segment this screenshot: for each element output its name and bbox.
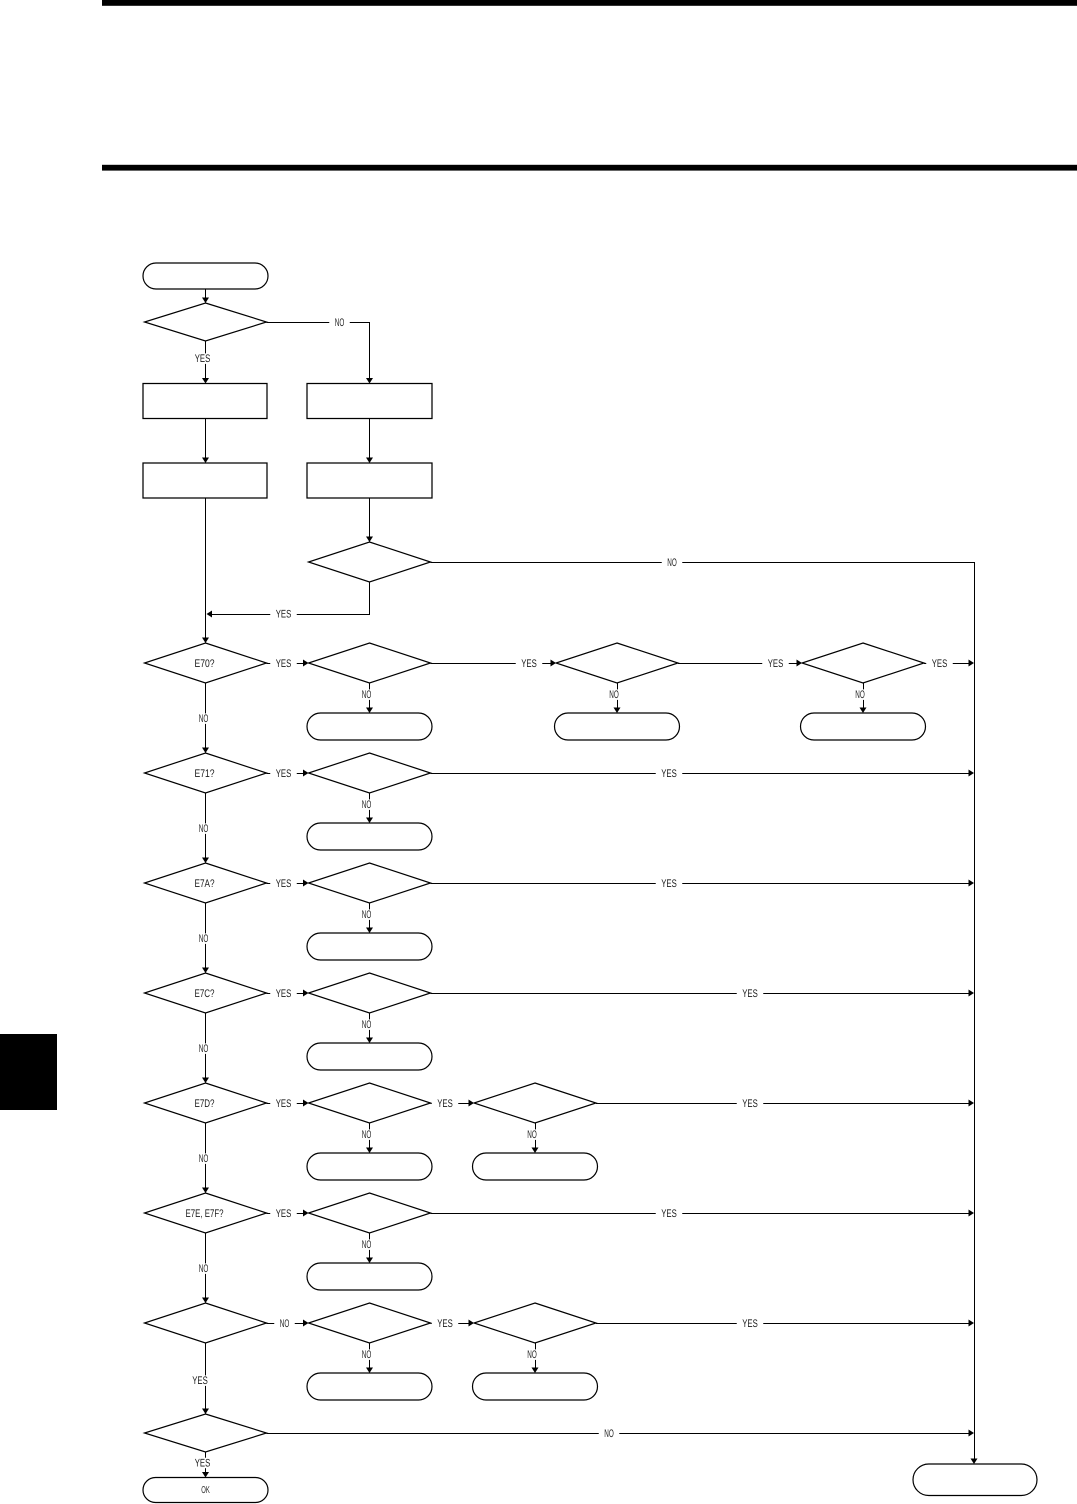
- wire E7A NO down: [205, 903, 207, 972]
- wire A2 down to E70 decision: [205, 498, 207, 642]
- svg-text:NO: NO: [604, 1428, 614, 1440]
- terminator OK: [143, 1478, 268, 1503]
- wire A1 to A2: [205, 419, 207, 462]
- svg-text:YES: YES: [276, 988, 292, 1000]
- decision blank row: [145, 1303, 267, 1343]
- right rail wire: [974, 562, 976, 1463]
- svg-text:YES: YES: [195, 353, 211, 365]
- svg-text:YES: YES: [437, 1318, 453, 1330]
- wire Q2 NO right to rail: [431, 562, 975, 564]
- svg-text:YES: YES: [276, 768, 292, 780]
- wire E7E NO down: [205, 1233, 207, 1302]
- wire E7A-B YES to rail: [431, 883, 973, 885]
- label NO on Q1 branch: [329, 317, 350, 328]
- wire start to Q1: [205, 289, 207, 302]
- svg-text:E70?: E70?: [195, 658, 215, 670]
- label YES E7D to B: [267, 1103, 308, 1105]
- wire E70-D YES to rail: [924, 663, 973, 665]
- svg-text:YES: YES: [195, 1457, 211, 1469]
- svg-text:NO: NO: [280, 1318, 290, 1330]
- decision blank-B with result terminator: [309, 1303, 431, 1343]
- svg-text:NO: NO: [199, 713, 209, 725]
- svg-text:NO: NO: [362, 1129, 372, 1141]
- label YES E7A to B: [267, 883, 308, 885]
- process box A2: [143, 463, 267, 498]
- process box A1: [143, 384, 267, 419]
- svg-text:NO: NO: [362, 909, 372, 921]
- decision E70: [145, 643, 267, 683]
- decision E7C-B with result terminator: [309, 973, 431, 1013]
- decision E7D-B with result terminator: [309, 1083, 431, 1123]
- wire Q2 YES down-left junction: [209, 583, 370, 615]
- label NO on final branch: [599, 1428, 620, 1439]
- svg-text:YES: YES: [742, 1098, 758, 1110]
- svg-text:NO: NO: [199, 933, 209, 945]
- section rule bar: [102, 165, 1077, 171]
- wire final NO right to rail: [267, 1433, 973, 1435]
- svg-text:NO: NO: [362, 1239, 372, 1251]
- svg-text:NO: NO: [199, 1043, 209, 1055]
- svg-text:NO: NO: [362, 1349, 372, 1361]
- decision E71: [145, 753, 267, 793]
- wire E70 NO down: [205, 683, 207, 752]
- wire E71 NO down: [205, 793, 207, 862]
- svg-text:NO: NO: [199, 823, 209, 835]
- wire blank-B YES to C2: [431, 1323, 473, 1325]
- process box B2: [307, 463, 432, 498]
- svg-text:YES: YES: [276, 1208, 292, 1220]
- label NO blank to B: [267, 1323, 308, 1325]
- svg-text:NO: NO: [527, 1349, 537, 1361]
- svg-text:NO: NO: [667, 557, 677, 569]
- svg-text:YES: YES: [742, 988, 758, 1000]
- decision E7E E7F: [145, 1193, 267, 1233]
- label YES E7E to B: [267, 1213, 308, 1215]
- svg-text:YES: YES: [276, 878, 292, 890]
- wire blank-C2 YES to rail: [596, 1323, 973, 1325]
- svg-text:YES: YES: [661, 1208, 677, 1220]
- label YES E7C to B: [267, 993, 308, 995]
- svg-text:YES: YES: [768, 658, 784, 670]
- svg-text:NO: NO: [855, 689, 865, 701]
- decision Q2: [309, 542, 431, 582]
- svg-text:YES: YES: [932, 658, 948, 670]
- svg-text:NO: NO: [335, 317, 345, 329]
- decision E7C: [145, 973, 267, 1013]
- svg-text:YES: YES: [742, 1318, 758, 1330]
- svg-text:NO: NO: [609, 689, 619, 701]
- label YES on Q2 branch: [270, 609, 297, 620]
- decision E70-C with result terminator: [556, 643, 678, 683]
- terminator bottom right: [913, 1464, 1037, 1496]
- wire final YES down: [205, 1452, 207, 1476]
- wire E7C-B YES to rail: [431, 993, 973, 995]
- svg-text:E7D?: E7D?: [195, 1098, 215, 1110]
- label YES under Q1: [189, 353, 216, 364]
- decision E7D-C2 with result terminator: [474, 1083, 596, 1123]
- decision E70-D with result terminator: [802, 643, 924, 683]
- decision E7D: [145, 1083, 267, 1123]
- decision final: [145, 1414, 267, 1452]
- svg-text:E7E, E7F?: E7E, E7F?: [186, 1208, 224, 1220]
- svg-text:YES: YES: [437, 1098, 453, 1110]
- svg-text:YES: YES: [276, 1098, 292, 1110]
- svg-text:YES: YES: [661, 768, 677, 780]
- wire B2 down to Q2: [369, 498, 371, 541]
- svg-text:E71?: E71?: [195, 768, 215, 780]
- svg-text:NO: NO: [362, 689, 372, 701]
- wire blank YES down to final: [205, 1343, 207, 1413]
- decision E7A-B with result terminator: [309, 863, 431, 903]
- label YES E71 to B: [267, 773, 308, 775]
- decision E7E-B with result terminator: [309, 1193, 431, 1233]
- wire E7D NO down: [205, 1123, 207, 1192]
- start terminator: [143, 263, 268, 289]
- svg-text:NO: NO: [527, 1129, 537, 1141]
- top black bar: [102, 0, 1077, 6]
- wire E70-B YES to C: [431, 663, 555, 665]
- label YES E70 to B: [267, 663, 308, 665]
- svg-text:YES: YES: [192, 1375, 208, 1387]
- left edge page tab: [0, 1034, 57, 1110]
- wire E7D-B YES to C2: [431, 1103, 473, 1105]
- svg-text:YES: YES: [661, 878, 677, 890]
- svg-text:E7A?: E7A?: [195, 878, 215, 890]
- svg-text:NO: NO: [199, 1263, 209, 1275]
- process box B1: [307, 384, 432, 419]
- svg-text:E7C?: E7C?: [195, 988, 215, 1000]
- decision Q1: [145, 303, 267, 341]
- wire E7D-C2 YES to rail: [596, 1103, 973, 1105]
- decision blank-C2 with result terminator: [474, 1303, 596, 1343]
- svg-text:NO: NO: [199, 1153, 209, 1165]
- wire E71-B YES to rail: [431, 773, 973, 775]
- svg-text:NO: NO: [362, 799, 372, 811]
- wire Q1 YES down: [205, 341, 207, 382]
- wire E7C NO down: [205, 1013, 207, 1082]
- svg-text:YES: YES: [276, 658, 292, 670]
- svg-text:YES: YES: [276, 609, 292, 621]
- wire B1 to B2: [369, 419, 371, 462]
- decision E7A: [145, 863, 267, 903]
- label NO on Q2 branch: [662, 557, 683, 568]
- wire Q1 NO right to column B: [267, 323, 370, 383]
- svg-text:OK: OK: [201, 1485, 210, 1496]
- wire E70-C YES to D: [678, 663, 801, 665]
- svg-text:NO: NO: [362, 1019, 372, 1031]
- svg-text:YES: YES: [521, 658, 537, 670]
- decision E71-B with result terminator: [309, 753, 431, 793]
- wire E7E-B YES to rail: [431, 1213, 973, 1215]
- decision E70-B with result terminator: [309, 643, 431, 683]
